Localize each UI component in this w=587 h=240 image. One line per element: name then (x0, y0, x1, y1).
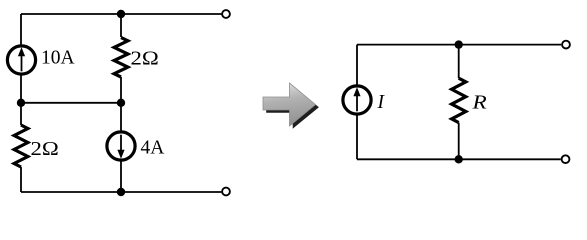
svg-text:2Ω: 2Ω (131, 49, 159, 70)
wire: left circuit middle branch upper (resistor leads) (120, 14, 122, 103)
wire: right circuit left branch (source leads) (356, 45, 358, 160)
resistor 2Ω (bottom left) (14, 125, 28, 167)
svg-text:R: R (471, 93, 486, 114)
terminal: left circuit bottom (222, 188, 230, 196)
node dot: middle rail left (17, 99, 25, 107)
wire: left circuit left branch lower (resistor leads) (20, 103, 22, 192)
svg-text:2Ω: 2Ω (31, 139, 59, 160)
svg-text:4A: 4A (141, 138, 165, 159)
node dot: right circuit bottom (455, 155, 463, 163)
terminal: right circuit top (562, 41, 570, 49)
terminal: right circuit bottom (562, 155, 570, 163)
wire: right circuit top rail (357, 44, 561, 46)
label 10A (41, 47, 75, 68)
wire: left circuit top rail (21, 13, 221, 15)
node dot: right circuit top (455, 40, 463, 48)
wire: right circuit middle branch (resistor leads) (458, 45, 460, 160)
wire: left circuit bottom rail (21, 191, 221, 193)
wire: right circuit bottom rail (357, 158, 561, 160)
current source 4A (107, 132, 135, 160)
svg-text:10A: 10A (41, 47, 75, 68)
wire: left circuit left branch upper (source leads) (20, 14, 22, 103)
block arrow (transform) (263, 83, 319, 129)
current source I (343, 86, 371, 114)
resistor 2Ω (top middle) (114, 38, 128, 78)
node dot: left top junction (117, 10, 125, 18)
label I (377, 92, 386, 113)
label 4A (141, 138, 165, 159)
node dot: middle rail right (117, 99, 125, 107)
label 2Ω (top) (131, 49, 159, 70)
svg-text:I: I (377, 92, 386, 113)
label R (471, 93, 486, 114)
resistor R (452, 78, 466, 122)
label 2Ω (bottom) (31, 139, 59, 160)
wire: left circuit middle rail (21, 102, 121, 104)
current source 10A (7, 46, 35, 74)
wire: left circuit middle branch lower (source leads) (120, 103, 122, 192)
terminal: left circuit top (222, 10, 230, 18)
node dot: left bottom junction (117, 188, 125, 196)
